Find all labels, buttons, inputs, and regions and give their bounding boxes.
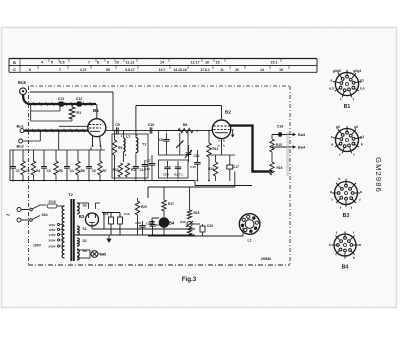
tap 125V bbox=[49, 228, 65, 232]
mains plug bbox=[6, 208, 29, 223]
svg-text:R5: R5 bbox=[59, 169, 63, 173]
transformer winding S4 bbox=[77, 249, 87, 260]
svg-text:k,s: k,s bbox=[360, 87, 365, 91]
svg-text:S1: S1 bbox=[83, 227, 87, 231]
svg-text:9: 9 bbox=[107, 61, 109, 65]
tap 245V bbox=[49, 244, 65, 248]
resistor R5 bbox=[54, 150, 63, 181]
svg-text:s: s bbox=[331, 135, 333, 139]
wire (AF bottom rail) bbox=[148, 235, 243, 237]
resistor R18 bbox=[187, 187, 199, 219]
jack Bu2 bbox=[17, 139, 25, 149]
svg-text:10: 10 bbox=[115, 61, 119, 65]
resistor R4 bbox=[31, 150, 40, 181]
svg-text:C21: C21 bbox=[146, 222, 152, 226]
svg-text:11: 11 bbox=[220, 68, 224, 72]
svg-text:L1: L1 bbox=[247, 239, 251, 243]
svg-text:Bu3: Bu3 bbox=[298, 133, 305, 137]
capacitor C8 bbox=[159, 133, 170, 155]
wire (thick screened lead from B2 to output) bbox=[230, 126, 272, 172]
svg-text:a: a bbox=[360, 190, 362, 194]
svg-text:B3: B3 bbox=[79, 214, 85, 219]
svg-text:29536: 29536 bbox=[261, 257, 272, 261]
svg-text:g3g5: g3g5 bbox=[333, 69, 341, 73]
svg-text:55: 55 bbox=[106, 68, 110, 72]
capacitor C21 bbox=[146, 218, 159, 227]
tap 145V bbox=[49, 233, 65, 237]
wire (heater/cathode bus) bbox=[75, 234, 195, 236]
resistor R8 bbox=[178, 123, 193, 133]
resistor R9 bbox=[112, 131, 122, 181]
capacitor C19 bbox=[135, 221, 145, 235]
svg-text:14.15.16: 14.15.16 bbox=[173, 68, 186, 72]
capacitor C18a (electrolytic) bbox=[102, 212, 120, 235]
IF transformer T1 screening can bbox=[112, 134, 148, 178]
svg-text:k: k bbox=[361, 143, 363, 147]
capacitor C18b (electrolytic) bbox=[118, 212, 130, 235]
svg-text:Bu4: Bu4 bbox=[298, 146, 306, 150]
tube B3 (rectifier) bbox=[79, 213, 99, 226]
transformer T2 bbox=[62, 192, 74, 261]
svg-text:R10: R10 bbox=[113, 168, 119, 172]
svg-text:R16: R16 bbox=[277, 166, 283, 170]
lamp La1 bbox=[77, 250, 106, 258]
resistor R10 bbox=[113, 163, 123, 177]
svg-text:125V: 125V bbox=[49, 228, 56, 232]
capacitor C15 bbox=[190, 150, 200, 181]
svg-text:R9: R9 bbox=[118, 146, 122, 150]
svg-text:S3: S3 bbox=[83, 204, 87, 208]
svg-text:C2: C2 bbox=[26, 169, 30, 173]
svg-text:C10: C10 bbox=[148, 123, 155, 127]
svg-text:R19: R19 bbox=[180, 220, 186, 224]
svg-text:a: a bbox=[331, 143, 333, 147]
svg-text:9.8.17: 9.8.17 bbox=[125, 68, 135, 72]
svg-text:g3: g3 bbox=[336, 125, 340, 129]
svg-text:16: 16 bbox=[205, 61, 209, 65]
svg-text:7: 7 bbox=[59, 68, 61, 72]
svg-text:R8: R8 bbox=[183, 123, 188, 127]
svg-text:C1: C1 bbox=[16, 169, 20, 173]
svg-text:C17: C17 bbox=[233, 165, 239, 169]
potentiometer R19 bbox=[180, 220, 193, 236]
transformer winding S1 bbox=[77, 226, 87, 235]
svg-text:17.8.1: 17.8.1 bbox=[200, 68, 210, 72]
capacitor C13 bbox=[133, 162, 146, 181]
valve base B2 bbox=[331, 125, 364, 157]
valve base B1 bbox=[329, 69, 365, 110]
capacitor C5b bbox=[174, 161, 183, 178]
svg-text:11.12: 11.12 bbox=[126, 61, 135, 65]
svg-text:T2: T2 bbox=[68, 192, 73, 197]
svg-text:La1: La1 bbox=[100, 253, 106, 257]
svg-text:C9: C9 bbox=[115, 123, 120, 127]
svg-text:B4: B4 bbox=[342, 265, 349, 271]
svg-text:R6: R6 bbox=[81, 169, 85, 173]
jack Bu1 (pick-up) bbox=[17, 123, 25, 132]
transformer winding S2 bbox=[77, 238, 87, 246]
svg-text:B3: B3 bbox=[343, 213, 350, 219]
capacitor C20 bbox=[149, 220, 162, 235]
svg-text:C7: C7 bbox=[147, 159, 151, 163]
svg-text:T1: T1 bbox=[142, 143, 146, 147]
svg-text:C16: C16 bbox=[277, 125, 284, 129]
wire (Bu2 lead) bbox=[23, 132, 41, 141]
wire (S3 to B3 anodes) bbox=[84, 203, 100, 209]
svg-text:R17: R17 bbox=[168, 202, 174, 206]
arrow (output indication at B2) bbox=[231, 129, 235, 138]
svg-text:4: 4 bbox=[41, 61, 43, 65]
capacitor C5 bbox=[86, 150, 96, 181]
wire (AVC bus above component row) bbox=[10, 149, 105, 151]
svg-text:Fig.3: Fig.3 bbox=[182, 276, 197, 283]
tap 200V bbox=[49, 238, 65, 242]
resistor R15 bbox=[270, 135, 282, 153]
dial scale table bbox=[9, 59, 317, 73]
wire (AF section top rail) bbox=[148, 187, 235, 198]
svg-text:GM2986: GM2986 bbox=[374, 157, 383, 193]
wire (left riser) bbox=[9, 150, 11, 181]
svg-text:C4: C4 bbox=[70, 169, 74, 173]
resistor R1 bbox=[69, 104, 81, 121]
capacitor C30 bbox=[190, 224, 214, 236]
wire (B1 anode to B2 grid bus) bbox=[106, 130, 213, 132]
svg-text:145V: 145V bbox=[49, 233, 56, 237]
svg-text:h: h bbox=[353, 256, 355, 260]
transformer winding S3 bbox=[77, 203, 87, 214]
wire (T1 secondary to B2 grid) bbox=[136, 106, 222, 131]
capacitor C14 bbox=[144, 155, 155, 181]
svg-text:C3: C3 bbox=[47, 169, 51, 173]
capacitor C3 bbox=[41, 150, 51, 181]
discriminator transformer can (upper) bbox=[159, 131, 189, 156]
trimmer C-adj (upper can) bbox=[176, 133, 184, 155]
svg-text:15.: 15. bbox=[216, 61, 221, 65]
resistor R17 bbox=[162, 187, 174, 217]
svg-text:Sk1: Sk1 bbox=[42, 213, 48, 217]
node junctions on buses bbox=[12, 130, 210, 182]
svg-text:Bu5: Bu5 bbox=[18, 80, 27, 85]
resistor R13 bbox=[207, 131, 219, 181]
svg-text:g1: g1 bbox=[360, 79, 364, 83]
capacitor C11 bbox=[58, 97, 64, 107]
wire (screened lead Bu1 to B1 grid) bbox=[24, 130, 89, 132]
svg-text:S2: S2 bbox=[83, 239, 87, 243]
wire (B3 cathode HT) bbox=[92, 226, 195, 229]
svg-text:a.h: a.h bbox=[329, 87, 334, 91]
trimmer C12 bbox=[185, 145, 200, 162]
svg-text:C54: C54 bbox=[163, 173, 169, 177]
svg-text:10.7: 10.7 bbox=[159, 68, 166, 72]
valve base B3 bbox=[330, 177, 362, 219]
svg-text:a: a bbox=[331, 78, 333, 82]
svg-text:C19: C19 bbox=[135, 221, 141, 225]
svg-text:100V: 100V bbox=[33, 244, 42, 248]
svg-text:B4: B4 bbox=[169, 221, 175, 226]
jack Bu4 bbox=[272, 146, 306, 150]
capacitor C12 bbox=[76, 97, 83, 107]
ground (earth arrow) bbox=[106, 235, 111, 243]
coil L2 (secondary, T1) bbox=[136, 131, 146, 162]
svg-text:15: 15 bbox=[279, 68, 283, 72]
svg-text:C8: C8 bbox=[159, 138, 163, 142]
svg-text:C12: C12 bbox=[76, 97, 83, 101]
jack Bu5 (aerial socket) bbox=[18, 80, 27, 95]
capacitor C5a bbox=[163, 161, 170, 178]
discriminator can (lower) bbox=[159, 160, 189, 178]
wire (AVC line along top) bbox=[30, 92, 113, 131]
switch SK1 bbox=[30, 205, 48, 221]
svg-text:C: C bbox=[13, 67, 16, 72]
svg-text:C11: C11 bbox=[58, 97, 64, 101]
svg-text:200V: 200V bbox=[49, 238, 56, 242]
fuse Y10 bbox=[47, 200, 64, 208]
choke R20 bbox=[135, 198, 147, 235]
jack Bu3 bbox=[290, 133, 305, 137]
capacitor C9 bbox=[115, 123, 120, 134]
svg-text:8.2.7.1: 8.2.7.1 bbox=[174, 173, 183, 177]
capacitor C4 bbox=[64, 150, 74, 181]
chassis boundary (dash-dot border of schematic) bbox=[28, 86, 290, 265]
svg-text:14: 14 bbox=[260, 68, 264, 72]
svg-text:R14: R14 bbox=[208, 167, 214, 171]
wire (scan-smudged border segment) bbox=[286, 132, 289, 176]
svg-text:C5: C5 bbox=[92, 169, 96, 173]
svg-text:C14: C14 bbox=[144, 167, 150, 171]
svg-text:g2: g2 bbox=[354, 125, 358, 129]
svg-text:R18: R18 bbox=[194, 211, 200, 215]
svg-text:4.72: 4.72 bbox=[80, 68, 87, 72]
wire (grid return riser) bbox=[58, 131, 60, 150]
svg-text:b: b bbox=[223, 139, 225, 143]
svg-text:R1: R1 bbox=[77, 111, 82, 115]
svg-text:110V: 110V bbox=[49, 223, 56, 227]
svg-text:R13: R13 bbox=[213, 147, 219, 151]
wire (B2 cathode net) bbox=[209, 147, 235, 155]
svg-text:B1: B1 bbox=[93, 108, 99, 114]
svg-text:12.17: 12.17 bbox=[191, 61, 200, 65]
wire (earth bus) bbox=[10, 181, 252, 186]
svg-text:k: k bbox=[329, 243, 331, 247]
svg-text:C30: C30 bbox=[207, 224, 213, 228]
resistor R6 bbox=[76, 150, 85, 181]
wire (to loudspeaker socket) bbox=[242, 226, 244, 236]
capacitor C10 bbox=[148, 123, 155, 134]
wire (cable hatching) bbox=[26, 102, 92, 132]
svg-text:5: 5 bbox=[51, 61, 53, 65]
svg-text:R7: R7 bbox=[103, 169, 107, 173]
resistor R7 bbox=[98, 150, 107, 181]
svg-text:15.1: 15.1 bbox=[271, 61, 278, 65]
resistor R11 bbox=[125, 163, 137, 177]
resistor R16 bbox=[270, 152, 283, 175]
tube B1 (pentode) bbox=[88, 104, 106, 151]
svg-text:1Y10: 1Y10 bbox=[48, 200, 56, 204]
svg-text:14: 14 bbox=[160, 61, 164, 65]
svg-text:B2: B2 bbox=[225, 110, 231, 116]
svg-text:Bu2: Bu2 bbox=[17, 144, 25, 149]
svg-text:8: 8 bbox=[97, 61, 99, 65]
wire (riser from C17 region down) bbox=[234, 172, 236, 188]
svg-text:B1: B1 bbox=[344, 104, 351, 110]
coil L1 (primary) bbox=[121, 131, 130, 162]
valve base B4 bbox=[329, 231, 361, 271]
capacitor C17 bbox=[227, 155, 239, 181]
svg-text:a: a bbox=[330, 190, 332, 194]
svg-text:g2g4: g2g4 bbox=[353, 69, 361, 73]
tap 110V bbox=[49, 223, 65, 227]
capacitor C7 bbox=[142, 159, 151, 181]
loudspeaker connector L1 bbox=[239, 214, 260, 243]
tube B4 (output valve) bbox=[159, 218, 175, 236]
svg-text:R20: R20 bbox=[141, 205, 147, 209]
svg-text:C19: C19 bbox=[124, 212, 130, 216]
svg-text:B: B bbox=[13, 60, 16, 65]
resistor R14 bbox=[208, 155, 218, 181]
tube B2 (output pentode of IF) bbox=[212, 110, 231, 148]
svg-text:7: 7 bbox=[88, 61, 90, 65]
svg-text:20: 20 bbox=[235, 68, 239, 72]
svg-text:~: ~ bbox=[6, 213, 10, 220]
svg-text:245V: 245V bbox=[49, 244, 56, 248]
svg-text:C15: C15 bbox=[190, 165, 196, 169]
resistor C2 bbox=[21, 150, 30, 181]
svg-text:a: a bbox=[359, 243, 361, 247]
svg-text:R4: R4 bbox=[36, 169, 40, 173]
svg-text:6: 6 bbox=[29, 68, 31, 72]
svg-text:R15: R15 bbox=[276, 143, 282, 147]
capacitor C1 bbox=[10, 150, 20, 181]
svg-text:Bu1: Bu1 bbox=[17, 123, 25, 128]
svg-text:k: k bbox=[338, 177, 340, 181]
wire (screened aerial cable to C11/C12) bbox=[23, 95, 96, 127]
svg-text:L1: L1 bbox=[126, 135, 130, 139]
svg-text:g1: g1 bbox=[360, 135, 364, 139]
svg-text:C12: C12 bbox=[194, 154, 200, 158]
capacitor C16 bbox=[272, 125, 290, 137]
svg-text:6.5: 6.5 bbox=[60, 61, 65, 65]
